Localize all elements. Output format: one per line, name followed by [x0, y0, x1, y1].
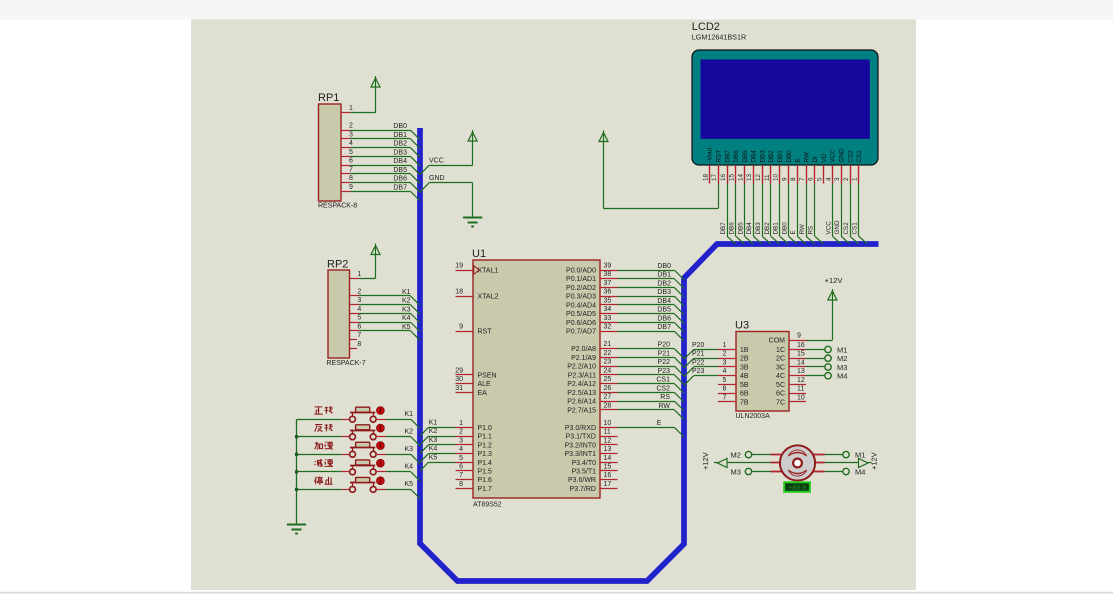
svg-text:DB4: DB4 — [657, 298, 671, 305]
svg-text:17: 17 — [604, 481, 612, 488]
svg-text:2: 2 — [349, 123, 353, 130]
svg-text:2: 2 — [723, 351, 727, 358]
svg-text:U1: U1 — [472, 248, 486, 260]
svg-text:RST: RST — [478, 329, 493, 336]
svg-text:VCC: VCC — [825, 221, 832, 235]
svg-text:1B: 1B — [740, 347, 749, 354]
svg-text:+88.8: +88.8 — [788, 485, 806, 492]
svg-text:DB6: DB6 — [733, 150, 740, 163]
svg-text:3: 3 — [357, 297, 361, 304]
svg-text:P23: P23 — [692, 368, 705, 375]
svg-text:M4: M4 — [855, 468, 865, 477]
svg-text:AT89S52: AT89S52 — [473, 502, 502, 509]
svg-text:6: 6 — [357, 323, 361, 330]
svg-text:2B: 2B — [740, 356, 749, 363]
svg-text:29: 29 — [455, 367, 463, 374]
svg-text:3C: 3C — [776, 365, 785, 372]
svg-text:15: 15 — [797, 351, 805, 358]
svg-text:3: 3 — [459, 437, 463, 444]
svg-text:5: 5 — [817, 177, 824, 181]
svg-text:P3.4/T0: P3.4/T0 — [571, 460, 596, 467]
svg-text:30: 30 — [455, 376, 463, 383]
svg-text:P0.4/AD4: P0.4/AD4 — [566, 303, 596, 310]
svg-text:P1.2: P1.2 — [478, 442, 493, 449]
svg-text:+12V: +12V — [825, 276, 843, 285]
svg-text:DB1: DB1 — [773, 222, 780, 235]
svg-text:K3: K3 — [402, 306, 411, 313]
svg-text:27: 27 — [604, 394, 612, 401]
svg-text:DB7: DB7 — [657, 324, 671, 331]
svg-text:7: 7 — [799, 177, 806, 181]
svg-text:28: 28 — [604, 402, 612, 409]
svg-text:RW: RW — [803, 152, 810, 162]
svg-text:9: 9 — [349, 184, 353, 191]
svg-text:35: 35 — [604, 298, 612, 305]
svg-text:DB7: DB7 — [724, 150, 731, 163]
svg-text:E: E — [657, 420, 662, 427]
svg-text:+12V: +12V — [701, 452, 710, 470]
svg-text:CS1: CS1 — [852, 222, 859, 235]
svg-text:CS2: CS2 — [843, 222, 850, 235]
svg-text:DB3: DB3 — [393, 149, 407, 156]
svg-text:3: 3 — [349, 131, 353, 138]
svg-text:K4: K4 — [404, 464, 413, 471]
svg-text:M1: M1 — [855, 451, 865, 460]
svg-text:5: 5 — [349, 149, 353, 156]
svg-text:K3: K3 — [404, 446, 413, 453]
svg-text:33: 33 — [604, 315, 612, 322]
svg-text:P21: P21 — [692, 351, 705, 358]
svg-text:12: 12 — [755, 173, 762, 181]
svg-text:P0.6/AD6: P0.6/AD6 — [566, 320, 596, 327]
svg-text:VCC: VCC — [830, 149, 837, 163]
svg-text:RS: RS — [660, 394, 670, 401]
svg-text:8: 8 — [790, 177, 797, 181]
svg-text:P3.7/RD: P3.7/RD — [570, 486, 596, 493]
svg-text:M4: M4 — [837, 372, 847, 381]
svg-text:5C: 5C — [776, 382, 785, 389]
svg-text:P0.2/AD2: P0.2/AD2 — [566, 285, 596, 292]
svg-text:DB3: DB3 — [759, 150, 766, 163]
svg-text:6: 6 — [459, 464, 463, 471]
svg-text:DB0: DB0 — [657, 263, 671, 270]
svg-text:P3.2/INT0: P3.2/INT0 — [564, 442, 596, 449]
svg-text:P20: P20 — [658, 342, 671, 349]
svg-text:8: 8 — [349, 175, 353, 182]
svg-text:4: 4 — [723, 368, 727, 375]
svg-text:2: 2 — [459, 429, 463, 436]
svg-text:DB4: DB4 — [746, 222, 753, 235]
svg-text:VCC: VCC — [429, 158, 444, 165]
svg-text:DB5: DB5 — [737, 222, 744, 235]
svg-text:31: 31 — [455, 385, 463, 392]
svg-text:P1.4: P1.4 — [478, 460, 493, 467]
svg-text:14: 14 — [737, 173, 744, 181]
svg-text:XTAL1: XTAL1 — [478, 268, 499, 275]
svg-text:15: 15 — [604, 464, 612, 471]
svg-text:E: E — [790, 230, 797, 234]
svg-text:37: 37 — [604, 280, 612, 287]
svg-text:P2.6/A14: P2.6/A14 — [567, 399, 596, 406]
svg-text:P0.1/AD1: P0.1/AD1 — [566, 276, 596, 283]
svg-text:2: 2 — [843, 177, 850, 181]
svg-text:DB1: DB1 — [777, 150, 784, 163]
svg-text:2: 2 — [357, 288, 361, 295]
svg-text:P3.3/INT1: P3.3/INT1 — [564, 451, 596, 458]
svg-text:P3.6/WR: P3.6/WR — [568, 477, 596, 484]
svg-text:ALE: ALE — [478, 381, 492, 388]
svg-text:K4: K4 — [402, 315, 411, 322]
svg-text:M3: M3 — [731, 468, 741, 477]
svg-text:K2: K2 — [402, 298, 411, 305]
svg-text:P2.4/A12: P2.4/A12 — [567, 381, 596, 388]
svg-text:19: 19 — [455, 263, 463, 270]
svg-text:7: 7 — [349, 166, 353, 173]
svg-text:P2.0/A8: P2.0/A8 — [571, 346, 596, 353]
svg-text:GND: GND — [429, 175, 445, 182]
svg-text:7C: 7C — [776, 399, 785, 406]
svg-text:2C: 2C — [776, 356, 785, 363]
svg-text:RP2: RP2 — [327, 259, 348, 271]
svg-text:5: 5 — [357, 315, 361, 322]
svg-text:CS1: CS1 — [856, 150, 863, 163]
svg-text:GND: GND — [834, 220, 841, 234]
svg-text:VD: VD — [821, 153, 828, 162]
svg-text:-Vout: -Vout — [707, 148, 714, 163]
svg-text:M1: M1 — [837, 345, 847, 354]
svg-text:3B: 3B — [740, 365, 749, 372]
svg-text:P22: P22 — [692, 360, 705, 367]
svg-text:5: 5 — [459, 455, 463, 462]
svg-text:6B: 6B — [740, 391, 749, 398]
svg-text:P1.0: P1.0 — [478, 425, 493, 432]
svg-text:DI: DI — [812, 156, 819, 163]
svg-text:K1: K1 — [404, 411, 413, 418]
svg-text:DB7: DB7 — [720, 222, 727, 235]
svg-text:13: 13 — [797, 368, 805, 375]
svg-text:12: 12 — [797, 377, 805, 384]
svg-text:DB6: DB6 — [657, 315, 671, 322]
svg-text:39: 39 — [604, 263, 612, 270]
svg-text:9: 9 — [459, 324, 463, 331]
svg-text:LGM12641BS1R: LGM12641BS1R — [692, 33, 746, 42]
svg-text:P3.0/RXD: P3.0/RXD — [565, 425, 596, 432]
svg-text:DB0: DB0 — [781, 222, 788, 235]
svg-text:DB5: DB5 — [393, 167, 407, 174]
svg-text:DB2: DB2 — [393, 141, 407, 148]
svg-text:P0.5/AD5: P0.5/AD5 — [566, 311, 596, 318]
svg-text:RW: RW — [799, 224, 806, 234]
svg-text:P20: P20 — [692, 342, 705, 349]
svg-text:DB5: DB5 — [742, 150, 749, 163]
svg-text:4: 4 — [459, 446, 463, 453]
svg-text:5: 5 — [723, 377, 727, 384]
svg-text:P22: P22 — [658, 359, 671, 366]
svg-text:EA: EA — [478, 390, 488, 397]
svg-text:P2.1/A9: P2.1/A9 — [571, 355, 596, 362]
svg-text:M2: M2 — [837, 354, 847, 363]
svg-text:K1: K1 — [429, 419, 438, 426]
svg-text:DB0: DB0 — [786, 150, 793, 163]
svg-text:4: 4 — [357, 306, 361, 313]
svg-text:RST: RST — [716, 150, 723, 163]
svg-text:12: 12 — [604, 437, 612, 444]
svg-text:1C: 1C — [776, 347, 785, 354]
svg-text:RESPACK-8: RESPACK-8 — [318, 203, 357, 210]
svg-text:P0.3/AD3: P0.3/AD3 — [566, 294, 596, 301]
svg-text:M3: M3 — [837, 363, 847, 372]
svg-text:1: 1 — [723, 342, 727, 349]
svg-text:DB2: DB2 — [768, 150, 775, 163]
svg-text:K2: K2 — [429, 428, 438, 435]
svg-text:34: 34 — [604, 306, 612, 313]
svg-text:7: 7 — [723, 394, 727, 401]
svg-text:P3.5/T1: P3.5/T1 — [571, 469, 596, 476]
svg-text:XTAL2: XTAL2 — [478, 294, 499, 301]
svg-text:CS2: CS2 — [656, 385, 670, 392]
svg-text:DB6: DB6 — [393, 176, 407, 183]
svg-text:4B: 4B — [740, 373, 749, 380]
svg-text:11: 11 — [604, 429, 611, 436]
svg-text:6: 6 — [349, 158, 353, 165]
svg-text:7: 7 — [459, 472, 463, 479]
svg-text:16: 16 — [604, 472, 612, 479]
svg-text:P2.7/A15: P2.7/A15 — [567, 407, 596, 414]
svg-text:7B: 7B — [740, 399, 749, 406]
svg-text:CS1: CS1 — [656, 377, 670, 384]
svg-text:16: 16 — [720, 173, 727, 181]
svg-text:10: 10 — [604, 420, 612, 427]
svg-text:1: 1 — [349, 105, 353, 112]
svg-text:P1.6: P1.6 — [478, 477, 493, 484]
svg-text:+12V: +12V — [870, 452, 879, 470]
svg-text:DB3: DB3 — [755, 222, 762, 235]
svg-text:11: 11 — [764, 174, 771, 181]
svg-text:P2.5/A13: P2.5/A13 — [567, 390, 596, 397]
svg-text:K1: K1 — [402, 289, 411, 296]
svg-text:DB4: DB4 — [393, 158, 407, 165]
svg-text:P2.3/A11: P2.3/A11 — [568, 372, 596, 379]
svg-text:3: 3 — [834, 177, 841, 181]
svg-text:P2.2/A10: P2.2/A10 — [567, 364, 596, 371]
svg-text:P1.3: P1.3 — [478, 451, 493, 458]
svg-text:PSEN: PSEN — [478, 372, 497, 379]
svg-text:P21: P21 — [658, 350, 671, 357]
svg-text:K5: K5 — [404, 481, 413, 488]
svg-text:RP1: RP1 — [318, 92, 339, 104]
svg-text:DB7: DB7 — [393, 184, 407, 191]
svg-text:DB5: DB5 — [657, 307, 671, 314]
svg-text:15: 15 — [729, 173, 736, 181]
svg-text:P3.1/TXD: P3.1/TXD — [566, 434, 596, 441]
svg-text:4: 4 — [825, 177, 832, 181]
svg-text:LCD2: LCD2 — [692, 21, 720, 33]
svg-text:M2: M2 — [731, 451, 741, 460]
svg-text:38: 38 — [604, 271, 612, 278]
svg-text:1: 1 — [459, 420, 463, 427]
svg-text:9: 9 — [781, 177, 788, 181]
svg-text:4C: 4C — [776, 373, 785, 380]
svg-text:7: 7 — [357, 332, 361, 339]
svg-text:P23: P23 — [658, 368, 671, 375]
svg-text:6C: 6C — [776, 391, 785, 398]
svg-text:17: 17 — [711, 173, 718, 181]
svg-text:18: 18 — [702, 173, 709, 181]
svg-text:10: 10 — [797, 394, 805, 401]
svg-text:14: 14 — [797, 360, 805, 367]
svg-text:ULN2003A: ULN2003A — [736, 413, 771, 420]
svg-text:3: 3 — [723, 360, 727, 367]
svg-text:RW: RW — [658, 403, 670, 410]
svg-text:8: 8 — [459, 481, 463, 488]
svg-text:26: 26 — [604, 385, 612, 392]
svg-text:4: 4 — [349, 140, 353, 147]
svg-text:25: 25 — [604, 376, 612, 383]
svg-text:RESPACK-7: RESPACK-7 — [327, 360, 366, 367]
svg-text:DB1: DB1 — [657, 272, 671, 279]
svg-text:13: 13 — [604, 446, 612, 453]
svg-text:18: 18 — [455, 289, 463, 296]
svg-text:K2: K2 — [404, 429, 413, 436]
svg-text:21: 21 — [604, 341, 612, 348]
svg-text:RS: RS — [808, 226, 815, 235]
svg-text:K4: K4 — [429, 446, 438, 453]
svg-text:P1.1: P1.1 — [478, 434, 493, 441]
svg-text:36: 36 — [604, 289, 612, 296]
svg-text:5B: 5B — [740, 382, 749, 389]
svg-text:22: 22 — [604, 350, 612, 357]
svg-text:24: 24 — [604, 367, 612, 374]
svg-text:32: 32 — [604, 324, 612, 331]
svg-text:DB1: DB1 — [393, 132, 407, 139]
svg-text:P0.0/AD0: P0.0/AD0 — [566, 268, 596, 275]
svg-text:6: 6 — [808, 177, 815, 181]
svg-text:23: 23 — [604, 359, 612, 366]
svg-text:10: 10 — [773, 173, 780, 181]
svg-text:11: 11 — [797, 386, 804, 393]
svg-text:1: 1 — [852, 177, 859, 181]
svg-text:16: 16 — [797, 342, 805, 349]
svg-text:DB6: DB6 — [729, 222, 736, 235]
svg-text:DB4: DB4 — [751, 150, 758, 163]
svg-text:P0.7/AD7: P0.7/AD7 — [566, 329, 596, 336]
svg-text:DB3: DB3 — [657, 289, 671, 296]
svg-text:P1.7: P1.7 — [478, 486, 493, 493]
svg-text:DB0: DB0 — [393, 123, 407, 130]
svg-text:K5: K5 — [429, 454, 438, 461]
svg-text:COM: COM — [769, 338, 786, 345]
svg-text:CS2: CS2 — [847, 150, 854, 163]
svg-text:13: 13 — [746, 173, 753, 181]
svg-text:DB2: DB2 — [764, 222, 771, 235]
svg-text:P1.5: P1.5 — [478, 469, 493, 476]
svg-text:14: 14 — [604, 455, 612, 462]
svg-text:DB2: DB2 — [657, 281, 671, 288]
svg-text:K3: K3 — [429, 437, 438, 444]
svg-text:E: E — [795, 158, 802, 162]
svg-text:1: 1 — [357, 271, 361, 278]
svg-text:6: 6 — [723, 386, 727, 393]
svg-text:9: 9 — [797, 333, 801, 340]
svg-text:K5: K5 — [402, 324, 411, 331]
svg-text:GND: GND — [839, 148, 846, 162]
svg-text:8: 8 — [357, 341, 361, 348]
svg-text:U3: U3 — [735, 320, 749, 332]
